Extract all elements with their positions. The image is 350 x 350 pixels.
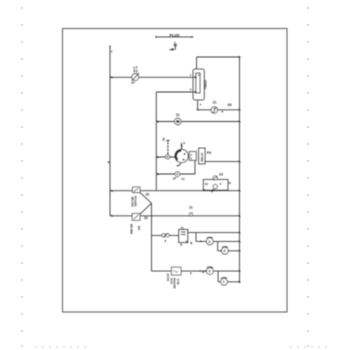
wire compressor row xyxy=(156,156,189,158)
wire timer feed xyxy=(156,91,193,93)
run capacitor C1 xyxy=(173,172,180,179)
evap fan terminal microtext xyxy=(166,273,180,288)
wire lamp box out xyxy=(188,232,240,234)
wire terminal drop xyxy=(194,160,196,174)
mullion heater lamp E2 xyxy=(175,118,182,125)
wire tick under lamp box xyxy=(191,242,192,244)
svg-text:SW: SW xyxy=(137,225,141,230)
plug line xyxy=(156,36,194,38)
wire freezer fan row xyxy=(152,234,179,236)
wire light4 row xyxy=(218,281,239,283)
svg-text:8: 8 xyxy=(209,240,211,244)
svg-text:11: 11 xyxy=(176,113,180,117)
bottom edge dots xyxy=(35,346,326,347)
svg-text:RELAY: RELAY xyxy=(200,152,204,161)
svg-text:PLUG: PLUG xyxy=(170,33,180,37)
svg-text:F9: F9 xyxy=(207,151,211,155)
light L3 xyxy=(207,267,214,275)
wire drop3 xyxy=(217,271,219,282)
timer pin labels xyxy=(190,73,202,107)
svg-text:10: 10 xyxy=(205,182,209,186)
wire defrost thermostat row xyxy=(110,190,240,192)
svg-text:71: 71 xyxy=(181,226,185,230)
freezer light B1 xyxy=(131,73,139,83)
connector plug pair xyxy=(162,233,169,237)
perforation dot column right xyxy=(307,7,308,346)
wire freezer light feed xyxy=(110,76,193,78)
plug ground symbol xyxy=(169,44,177,51)
wire light2 row xyxy=(218,250,240,252)
svg-text:8: 8 xyxy=(209,270,211,274)
svg-text:31: 31 xyxy=(144,216,148,220)
wire defrost heater row xyxy=(198,109,240,111)
wire fresh food row xyxy=(110,215,240,217)
junction ticks xyxy=(108,46,240,283)
wire timer bottom lead xyxy=(197,100,199,110)
evap fan box xyxy=(171,267,181,275)
wire light1 row xyxy=(196,240,240,242)
wire relay to bus xyxy=(205,161,239,163)
svg-text:21: 21 xyxy=(213,101,217,105)
svg-text:8: 8 xyxy=(224,249,226,253)
wire evap fan row xyxy=(152,270,240,272)
svg-text:TIMER: TIMER xyxy=(204,79,208,89)
defrost heater lamp E1 xyxy=(211,107,217,113)
food door switch S2 xyxy=(132,214,140,221)
svg-text:REF DR: REF DR xyxy=(130,224,134,234)
svg-text:8: 8 xyxy=(223,280,225,284)
freezer lamp box xyxy=(179,229,188,245)
compressor terminal box xyxy=(189,152,196,161)
light L2 xyxy=(222,246,229,254)
freezer door switch S1 xyxy=(133,187,141,193)
wire top to right bus xyxy=(197,56,240,58)
perforation dot column left xyxy=(21,7,22,346)
svg-text:14: 14 xyxy=(219,172,223,176)
svg-text:11: 11 xyxy=(189,206,193,210)
svg-text:41: 41 xyxy=(146,193,150,197)
wire drop2 xyxy=(217,241,219,250)
PTC start relay xyxy=(199,148,206,164)
wire tick on evap fan row xyxy=(190,273,191,274)
svg-text:S: S xyxy=(190,156,192,160)
wire drop1 xyxy=(195,233,197,242)
wire switch diagonal upper xyxy=(140,193,152,204)
light L1 xyxy=(206,237,213,245)
wire mullion heater row xyxy=(156,121,239,123)
light L4 xyxy=(221,277,228,285)
wire fan bus vertical xyxy=(151,203,153,271)
node L1 bus xyxy=(109,47,111,216)
wire run capacitor row xyxy=(156,173,195,175)
node right bus xyxy=(239,57,241,283)
wire vertical mid bus xyxy=(155,92,157,191)
svg-text:51: 51 xyxy=(182,177,186,181)
svg-text:BLK: BLK xyxy=(176,278,180,285)
compressor motor M1 xyxy=(175,143,188,167)
svg-text:OL: OL xyxy=(162,137,166,141)
border frame xyxy=(63,29,288,313)
defrost timer T1 xyxy=(193,69,204,100)
svg-text:34: 34 xyxy=(228,103,232,107)
svg-text:SWITCH: SWITCH xyxy=(133,196,137,207)
wire timer top riser xyxy=(196,57,198,69)
svg-text:N: N xyxy=(202,270,204,274)
defrost termination thermostat box xyxy=(203,176,228,193)
connector on food row xyxy=(190,213,192,216)
labels xyxy=(111,33,232,274)
wire switch diagonal lower xyxy=(140,203,152,214)
overload protector xyxy=(165,141,169,159)
